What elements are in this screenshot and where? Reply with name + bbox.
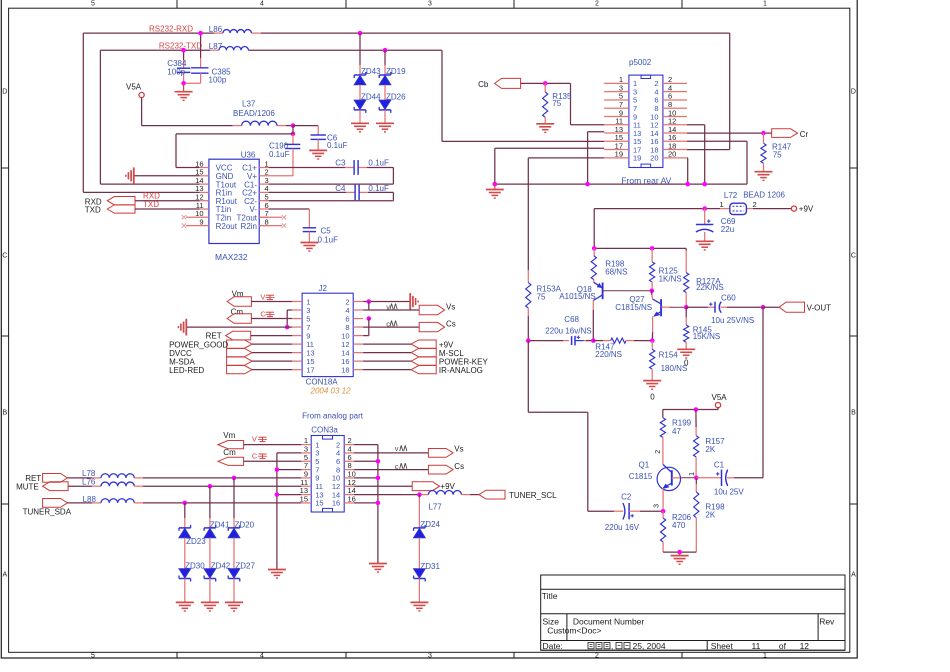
resistor R198 68/NS xyxy=(591,248,627,282)
junction bus pin20 xyxy=(685,182,690,187)
svg-text:+9V: +9V xyxy=(440,482,455,491)
svg-text:2: 2 xyxy=(655,450,662,454)
junction Q18 base node xyxy=(650,289,655,294)
port TXD xyxy=(85,200,200,215)
wire ground bus xyxy=(495,183,747,185)
junction Cr-R147 xyxy=(761,131,766,136)
label v-cong (CON3a) xyxy=(395,444,407,453)
label V-zhu (CON3a) xyxy=(252,435,267,444)
junction ZD20 column xyxy=(232,476,237,481)
junction bus pin10 xyxy=(376,476,381,481)
label MAX232 xyxy=(215,252,248,262)
svg-text:L87: L87 xyxy=(209,42,223,51)
capacitor C2 220u 16V xyxy=(588,493,663,533)
svg-text:18: 18 xyxy=(341,365,349,374)
wire ZD19-ZD26 xyxy=(384,85,386,100)
svg-text:From analog part: From analog part xyxy=(302,412,364,421)
wire p5002 pin14 to Cr xyxy=(687,132,772,134)
svg-text:C: C xyxy=(252,451,258,460)
wire p5002 pin12 to bus xyxy=(687,125,705,184)
resistor R154 180/NS xyxy=(650,341,688,381)
svg-text:22K/NS: 22K/NS xyxy=(696,283,724,292)
ground below R147 xyxy=(755,172,773,181)
ground below C6 xyxy=(309,150,327,159)
capacitor C69 xyxy=(696,209,736,242)
ground below R135 xyxy=(536,124,554,133)
svg-text:ZD24: ZD24 xyxy=(420,520,440,529)
svg-text:D: D xyxy=(851,89,856,96)
junction bus pin13 xyxy=(585,182,590,187)
junction C384-C385-gnd xyxy=(181,81,186,86)
svg-text:19: 19 xyxy=(633,154,641,163)
U36 pins and pin labels xyxy=(195,159,269,231)
resistor R147 75 xyxy=(761,133,792,172)
junction C68-Q18col xyxy=(591,338,596,343)
svg-text:Cb: Cb xyxy=(478,80,489,89)
junction Q1 base node xyxy=(694,476,699,481)
port Vs (J2) xyxy=(363,302,455,314)
svg-text:470: 470 xyxy=(672,521,686,530)
port TUNER_SDA xyxy=(23,499,101,517)
wire Q1 bottom rail xyxy=(663,551,696,553)
wire L88 to CON3a pin15 xyxy=(134,502,301,504)
junction zener column ZD43 xyxy=(358,31,363,36)
wire down to ZD43 xyxy=(359,33,361,75)
svg-text:1: 1 xyxy=(763,1,767,8)
ground below CON3a bus xyxy=(369,564,387,573)
svg-text:11: 11 xyxy=(751,641,760,651)
connector J2 box xyxy=(302,284,353,377)
svg-text:25, 2004: 25, 2004 xyxy=(633,641,666,651)
svg-text:Vs: Vs xyxy=(446,302,455,311)
svg-text:+9V: +9V xyxy=(799,205,814,214)
svg-text:ZD44: ZD44 xyxy=(361,92,381,101)
svg-text:10u 25V/NS: 10u 25V/NS xyxy=(711,316,754,325)
svg-text:ZD26: ZD26 xyxy=(386,92,406,101)
U36 no-connect R2out xyxy=(182,223,209,227)
svg-text:1K/NS: 1K/NS xyxy=(659,274,682,283)
junction ZD41 column xyxy=(208,484,213,489)
svg-text:10u 25V: 10u 25V xyxy=(714,488,744,497)
svg-text:R2out: R2out xyxy=(216,222,238,231)
ports POWER_GOOD DVCC M-SDA LED-RED xyxy=(169,340,292,375)
svg-text:A: A xyxy=(2,572,7,579)
svg-text:CON18A: CON18A xyxy=(306,378,339,387)
svg-text:0.1uF: 0.1uF xyxy=(368,159,389,168)
wire J2 pin2-pin4 tie xyxy=(368,302,370,311)
label c-cong (J2) xyxy=(386,319,397,328)
wire Q27 emitter down xyxy=(651,316,653,340)
U36 no-connect T2out xyxy=(259,215,286,219)
zener diode ZD27 xyxy=(228,561,255,581)
wire L76 to CON3a pin11 xyxy=(134,485,301,487)
label v-cong (J2) xyxy=(386,302,397,311)
junction RXD-C385 xyxy=(198,31,203,36)
wire ZD20-ZD27 xyxy=(233,538,235,571)
zener diode ZD42 xyxy=(204,561,231,581)
resistor R199 47 xyxy=(660,418,691,448)
label RS232-TXD xyxy=(159,42,202,51)
svg-text:1: 1 xyxy=(763,653,767,660)
junction bus pin6 xyxy=(376,459,381,464)
transistor Q18 A1015/NS xyxy=(559,282,652,301)
svg-text:75: 75 xyxy=(537,292,546,301)
zener diode ZD30 xyxy=(179,561,205,581)
junction bus pin12 xyxy=(702,182,707,187)
svg-text:0.1uF: 0.1uF xyxy=(327,141,348,150)
svg-text:U36: U36 xyxy=(241,151,256,160)
resistor R198 2K xyxy=(694,478,725,552)
zener diode ZD43 xyxy=(354,67,381,85)
svg-text:L88: L88 xyxy=(83,495,97,504)
svg-text:100p: 100p xyxy=(167,67,185,76)
port Vm (CON3a) xyxy=(218,431,301,449)
zener diode ZD41 xyxy=(204,520,230,537)
svg-text:A1015/NS: A1015/NS xyxy=(559,292,595,301)
ground below C5 xyxy=(300,243,318,252)
zener diode ZD31 xyxy=(414,562,441,581)
ground on bus xyxy=(486,184,504,198)
wire RS232-TXD net (row + drop to p5002 pin15 + left drop to U36 R1in) xyxy=(100,50,604,184)
svg-text:15: 15 xyxy=(300,495,308,504)
svg-text:RS232-RXD: RS232-RXD xyxy=(149,25,193,34)
capacitor C1 10u 25V xyxy=(696,461,763,497)
ground below Q1 stage xyxy=(671,552,689,564)
svg-text:17: 17 xyxy=(306,365,314,374)
ground below CON3a tie xyxy=(268,570,286,579)
port Cm (J2) xyxy=(227,307,292,323)
connector p5002 box xyxy=(629,58,663,168)
wire amp top rail xyxy=(594,248,686,272)
label V-zhu (J2) xyxy=(260,292,274,301)
svg-text:5: 5 xyxy=(91,1,95,8)
wire ZD43-ZD44 xyxy=(359,85,361,100)
wire ZD27 to ground xyxy=(233,579,235,603)
resistor R127A 22K/NS xyxy=(684,273,724,307)
ground below ZD42 xyxy=(201,602,219,611)
label From rear AV xyxy=(621,175,671,185)
wire p5002 pin17 to ground bus xyxy=(495,148,604,184)
svg-text:C1815: C1815 xyxy=(629,472,653,481)
terminal +9V xyxy=(791,205,814,214)
inductor L77 xyxy=(428,490,461,511)
svg-text:J2: J2 xyxy=(319,284,328,293)
svg-text:ZD23: ZD23 xyxy=(186,537,206,546)
svg-text:68/NS: 68/NS xyxy=(605,268,627,277)
connector CON3a box xyxy=(311,425,344,512)
inductor L87 xyxy=(209,42,249,51)
wire V5A to L37 xyxy=(142,98,293,126)
junction CON3a pin7 xyxy=(275,467,280,472)
junction ZD24 column xyxy=(417,492,422,497)
capacitor C384 xyxy=(167,50,190,83)
svg-text:V: V xyxy=(260,292,265,301)
svg-text:0: 0 xyxy=(684,359,689,368)
port Cb xyxy=(478,78,520,88)
svg-text:0.1uF: 0.1uF xyxy=(368,184,389,193)
label C-zhu (CON3a) xyxy=(252,451,267,460)
svg-text:c: c xyxy=(386,319,390,328)
wire down to ZD23 xyxy=(184,503,186,528)
wire ZD41-ZD42 xyxy=(209,538,211,571)
zener diode ZD19 xyxy=(379,67,406,85)
svg-text:2: 2 xyxy=(753,200,757,209)
label 2004 03 12 xyxy=(310,387,352,396)
svg-text:2K: 2K xyxy=(705,511,715,520)
svg-text:B: B xyxy=(851,410,856,417)
capacitor C68 220u 16v/NS xyxy=(545,315,591,346)
svg-text:100p: 100p xyxy=(209,76,227,85)
svg-text:IR-ANALOG: IR-ANALOG xyxy=(439,366,483,375)
title block xyxy=(541,575,845,651)
wire CON3a pin3-7-13 tie xyxy=(277,453,301,570)
svg-text:v: v xyxy=(395,444,399,453)
svg-text:C60: C60 xyxy=(721,293,736,302)
port RET (bottom) xyxy=(25,474,101,484)
wire down to ZD41 xyxy=(209,486,211,528)
svg-text:TUNER_SCL: TUNER_SCL xyxy=(509,491,557,500)
power terminal V5A (Q1) xyxy=(712,393,728,408)
wire down to ZD19 xyxy=(384,50,386,75)
zener diode ZD26 xyxy=(379,92,406,113)
svg-text:Cs: Cs xyxy=(454,462,464,471)
svg-text:Cr: Cr xyxy=(800,130,809,139)
svg-text:0.1uF: 0.1uF xyxy=(269,150,290,159)
svg-text:,: , xyxy=(611,641,613,651)
svg-text:4: 4 xyxy=(260,653,264,660)
svg-text:ZD27: ZD27 xyxy=(235,561,255,570)
resistor R147 220/NS xyxy=(593,338,652,359)
svg-text:20: 20 xyxy=(650,154,658,163)
junction J2 pin6 xyxy=(367,316,372,321)
svg-text:75: 75 xyxy=(552,99,561,108)
wire C68 row left xyxy=(528,340,593,342)
svg-text:ZD30: ZD30 xyxy=(185,561,205,570)
wire V5A rail xyxy=(663,408,718,418)
svg-text:75: 75 xyxy=(773,150,782,159)
port Vs (CON3a) xyxy=(354,445,464,458)
wire down to ZD24 xyxy=(418,495,420,528)
wire R153A node to C2 feed xyxy=(528,341,588,512)
inductor L86 xyxy=(209,25,252,34)
zener diode ZD44 xyxy=(354,92,381,113)
junction C69 node xyxy=(702,206,707,211)
svg-text:A: A xyxy=(851,572,856,579)
svg-text:2004 03 12: 2004 03 12 xyxy=(310,387,352,396)
svg-text:C68: C68 xyxy=(564,315,579,324)
svg-text:LED-RED: LED-RED xyxy=(169,366,204,375)
J2 pins and numbers xyxy=(292,297,363,374)
op-amp U36 box xyxy=(209,151,259,244)
junction zener column ZD19 xyxy=(383,48,388,53)
wire down to ZD20 xyxy=(233,478,235,528)
ground below ZD26 xyxy=(376,123,394,132)
svg-text:3: 3 xyxy=(428,1,432,8)
wire p5002 pin13 to ground bus xyxy=(588,132,605,184)
ground below R145 xyxy=(677,349,695,367)
capacitor C5 xyxy=(303,226,338,244)
svg-text:ZD19: ZD19 xyxy=(386,67,406,76)
svg-text:Cs: Cs xyxy=(446,320,456,329)
capacitor C6 xyxy=(311,134,348,151)
svg-text:220/NS: 220/NS xyxy=(595,350,622,359)
resistor R135 xyxy=(543,83,572,123)
svg-text:RET: RET xyxy=(206,331,222,340)
svg-text:22u: 22u xyxy=(721,225,734,234)
svg-text:Date:: Date: xyxy=(543,641,563,651)
svg-text:Q1: Q1 xyxy=(639,461,650,470)
svg-text:Vm: Vm xyxy=(223,431,235,440)
svg-text:3: 3 xyxy=(653,504,660,508)
svg-text:Sheet: Sheet xyxy=(711,641,734,651)
svg-text:19: 19 xyxy=(615,150,623,159)
svg-text:L77: L77 xyxy=(428,503,442,512)
ground below ZD27 xyxy=(225,602,243,611)
wire C1+ to C1- loop xyxy=(269,168,394,185)
ground below ZD31 xyxy=(410,602,428,611)
svg-text:TXD: TXD xyxy=(85,206,101,215)
svg-text:R154: R154 xyxy=(659,351,679,360)
resistor R145 15K/NS xyxy=(684,307,721,349)
wire J2 pin3-pin7 tie xyxy=(287,310,292,327)
earth ground J2 pin2 row xyxy=(363,293,418,310)
svg-text:15K/NS: 15K/NS xyxy=(693,332,721,341)
capacitor C4 xyxy=(335,184,389,200)
svg-text:B: B xyxy=(2,410,7,417)
wire V- to C5 xyxy=(269,209,310,228)
svg-text:C1: C1 xyxy=(714,461,725,470)
port Cm (CON3a) xyxy=(218,448,301,465)
capacitor C3 xyxy=(335,159,389,175)
svg-text:CON3a: CON3a xyxy=(311,425,338,434)
junction emitter node xyxy=(650,338,655,343)
label c-cong (CON3a) xyxy=(395,462,407,471)
wire L77 to TUNER_SCL xyxy=(461,494,479,496)
port +9V (CON3a) xyxy=(354,482,455,491)
svg-text:C: C xyxy=(2,253,7,260)
ferrite bead L72 xyxy=(720,191,786,215)
svg-text:15: 15 xyxy=(315,499,323,508)
svg-text:2: 2 xyxy=(595,653,599,660)
svg-text:Title: Title xyxy=(542,591,558,601)
label CON18A xyxy=(306,378,339,387)
svg-text:D: D xyxy=(2,89,7,96)
inductor L88 xyxy=(83,495,135,504)
label C-zhu (J2) xyxy=(260,309,274,318)
junction bus pin17 xyxy=(493,182,498,187)
svg-text:C: C xyxy=(260,309,266,318)
svg-text:16: 16 xyxy=(348,495,356,504)
svg-text:C1815/NS: C1815/NS xyxy=(615,303,652,312)
svg-text:TUNER_SDA: TUNER_SDA xyxy=(23,507,72,516)
capacitor C190 xyxy=(269,134,301,176)
port Cr xyxy=(772,129,809,139)
U36 no-connect R2in xyxy=(259,223,286,227)
wire C2+ to C2- loop xyxy=(269,192,394,200)
port TUNER_SCL xyxy=(479,490,557,500)
port Vm (J2) xyxy=(227,290,292,307)
resistor R206 470 xyxy=(661,511,692,552)
wire Q18 collector down xyxy=(592,301,594,341)
ground below C384/C385 xyxy=(175,83,193,100)
svg-text:220u 16v/NS: 220u 16v/NS xyxy=(545,327,591,336)
wire ZD23-ZD30 xyxy=(184,538,186,571)
svg-text:TXD: TXD xyxy=(143,200,159,209)
U36 no-connect T2in xyxy=(182,215,209,219)
ports +9V M-SCL POWER-KEY IR-ANALOG xyxy=(363,340,488,375)
junction rail R125 xyxy=(650,246,655,251)
junction R153A-C68 xyxy=(526,338,531,343)
port V-OUT xyxy=(763,302,831,313)
junction Q1 emitter node xyxy=(661,509,666,514)
junction rail R198 xyxy=(592,246,597,251)
wire Cb to p5002 pin11 xyxy=(521,83,605,124)
wire C1 to V-OUT node xyxy=(762,307,764,478)
junction Q27 base node xyxy=(684,305,689,310)
transistor Q27 C1815/NS xyxy=(615,295,686,316)
wire CON3a right bus xyxy=(354,445,378,564)
svg-text:C4: C4 xyxy=(335,184,346,193)
svg-text:16: 16 xyxy=(332,499,340,508)
junction bottom rail ground xyxy=(677,550,682,555)
resistor R153A 75 xyxy=(526,270,562,341)
port Cs (J2) xyxy=(363,320,456,332)
wire CON3a pin14 to L77 xyxy=(354,494,428,496)
svg-text:C: C xyxy=(851,253,856,260)
junction V5A-R157 xyxy=(694,407,699,412)
label From analog part xyxy=(302,412,364,421)
svg-text:c: c xyxy=(395,462,399,471)
wire p5002 pin18 to RS232-RXD xyxy=(687,33,730,150)
inductor L76 xyxy=(82,477,134,486)
svg-text:0.1uF: 0.1uF xyxy=(318,235,339,244)
svg-text:ZD43: ZD43 xyxy=(361,67,381,76)
capacitor C60 10u 25V/NS xyxy=(686,293,763,325)
svg-text:2: 2 xyxy=(595,1,599,8)
svg-text:V5A: V5A xyxy=(126,83,142,92)
wire RS232-RXD net (row + left drop to U36 T1out) xyxy=(83,33,729,192)
wire p5002 pin20 to bus xyxy=(686,158,689,184)
resistor R125 1K/NS xyxy=(650,248,682,290)
svg-text:5: 5 xyxy=(91,653,95,660)
svg-text:C5: C5 xyxy=(321,226,332,235)
wire Q27 collector up xyxy=(651,291,654,299)
svg-text:Custom<Doc>: Custom<Doc> xyxy=(547,626,601,636)
svg-text:C3: C3 xyxy=(335,159,346,168)
wire ZD44 to ground xyxy=(359,110,361,123)
svg-text:BEAD 1206: BEAD 1206 xyxy=(743,191,785,200)
CON3a pins and numbers xyxy=(300,436,356,508)
svg-text:V5A: V5A xyxy=(712,393,728,402)
svg-text:220u 16V: 220u 16V xyxy=(605,523,640,532)
junction VCC node xyxy=(291,132,296,137)
junction ZD23 column xyxy=(183,501,188,506)
junction TXD-C384 xyxy=(181,48,186,53)
port RXD xyxy=(85,192,200,207)
port Cs (CON3a) xyxy=(354,462,464,474)
port RET (J2) xyxy=(206,331,293,340)
svg-text:Rev: Rev xyxy=(819,616,835,626)
junction Cb-R135 xyxy=(543,81,548,86)
junction bus pin16 xyxy=(376,501,381,506)
wire ZD26 to ground xyxy=(384,110,386,123)
wire to C6 xyxy=(293,126,318,135)
power terminal V5A (top-left) xyxy=(126,83,144,98)
wire J2 pin6-pin10 tie xyxy=(363,319,369,336)
ground below ZD44 xyxy=(351,123,369,132)
wire +9V rail to bead L72 xyxy=(594,209,791,249)
svg-text:BEAD/1206: BEAD/1206 xyxy=(233,109,275,118)
